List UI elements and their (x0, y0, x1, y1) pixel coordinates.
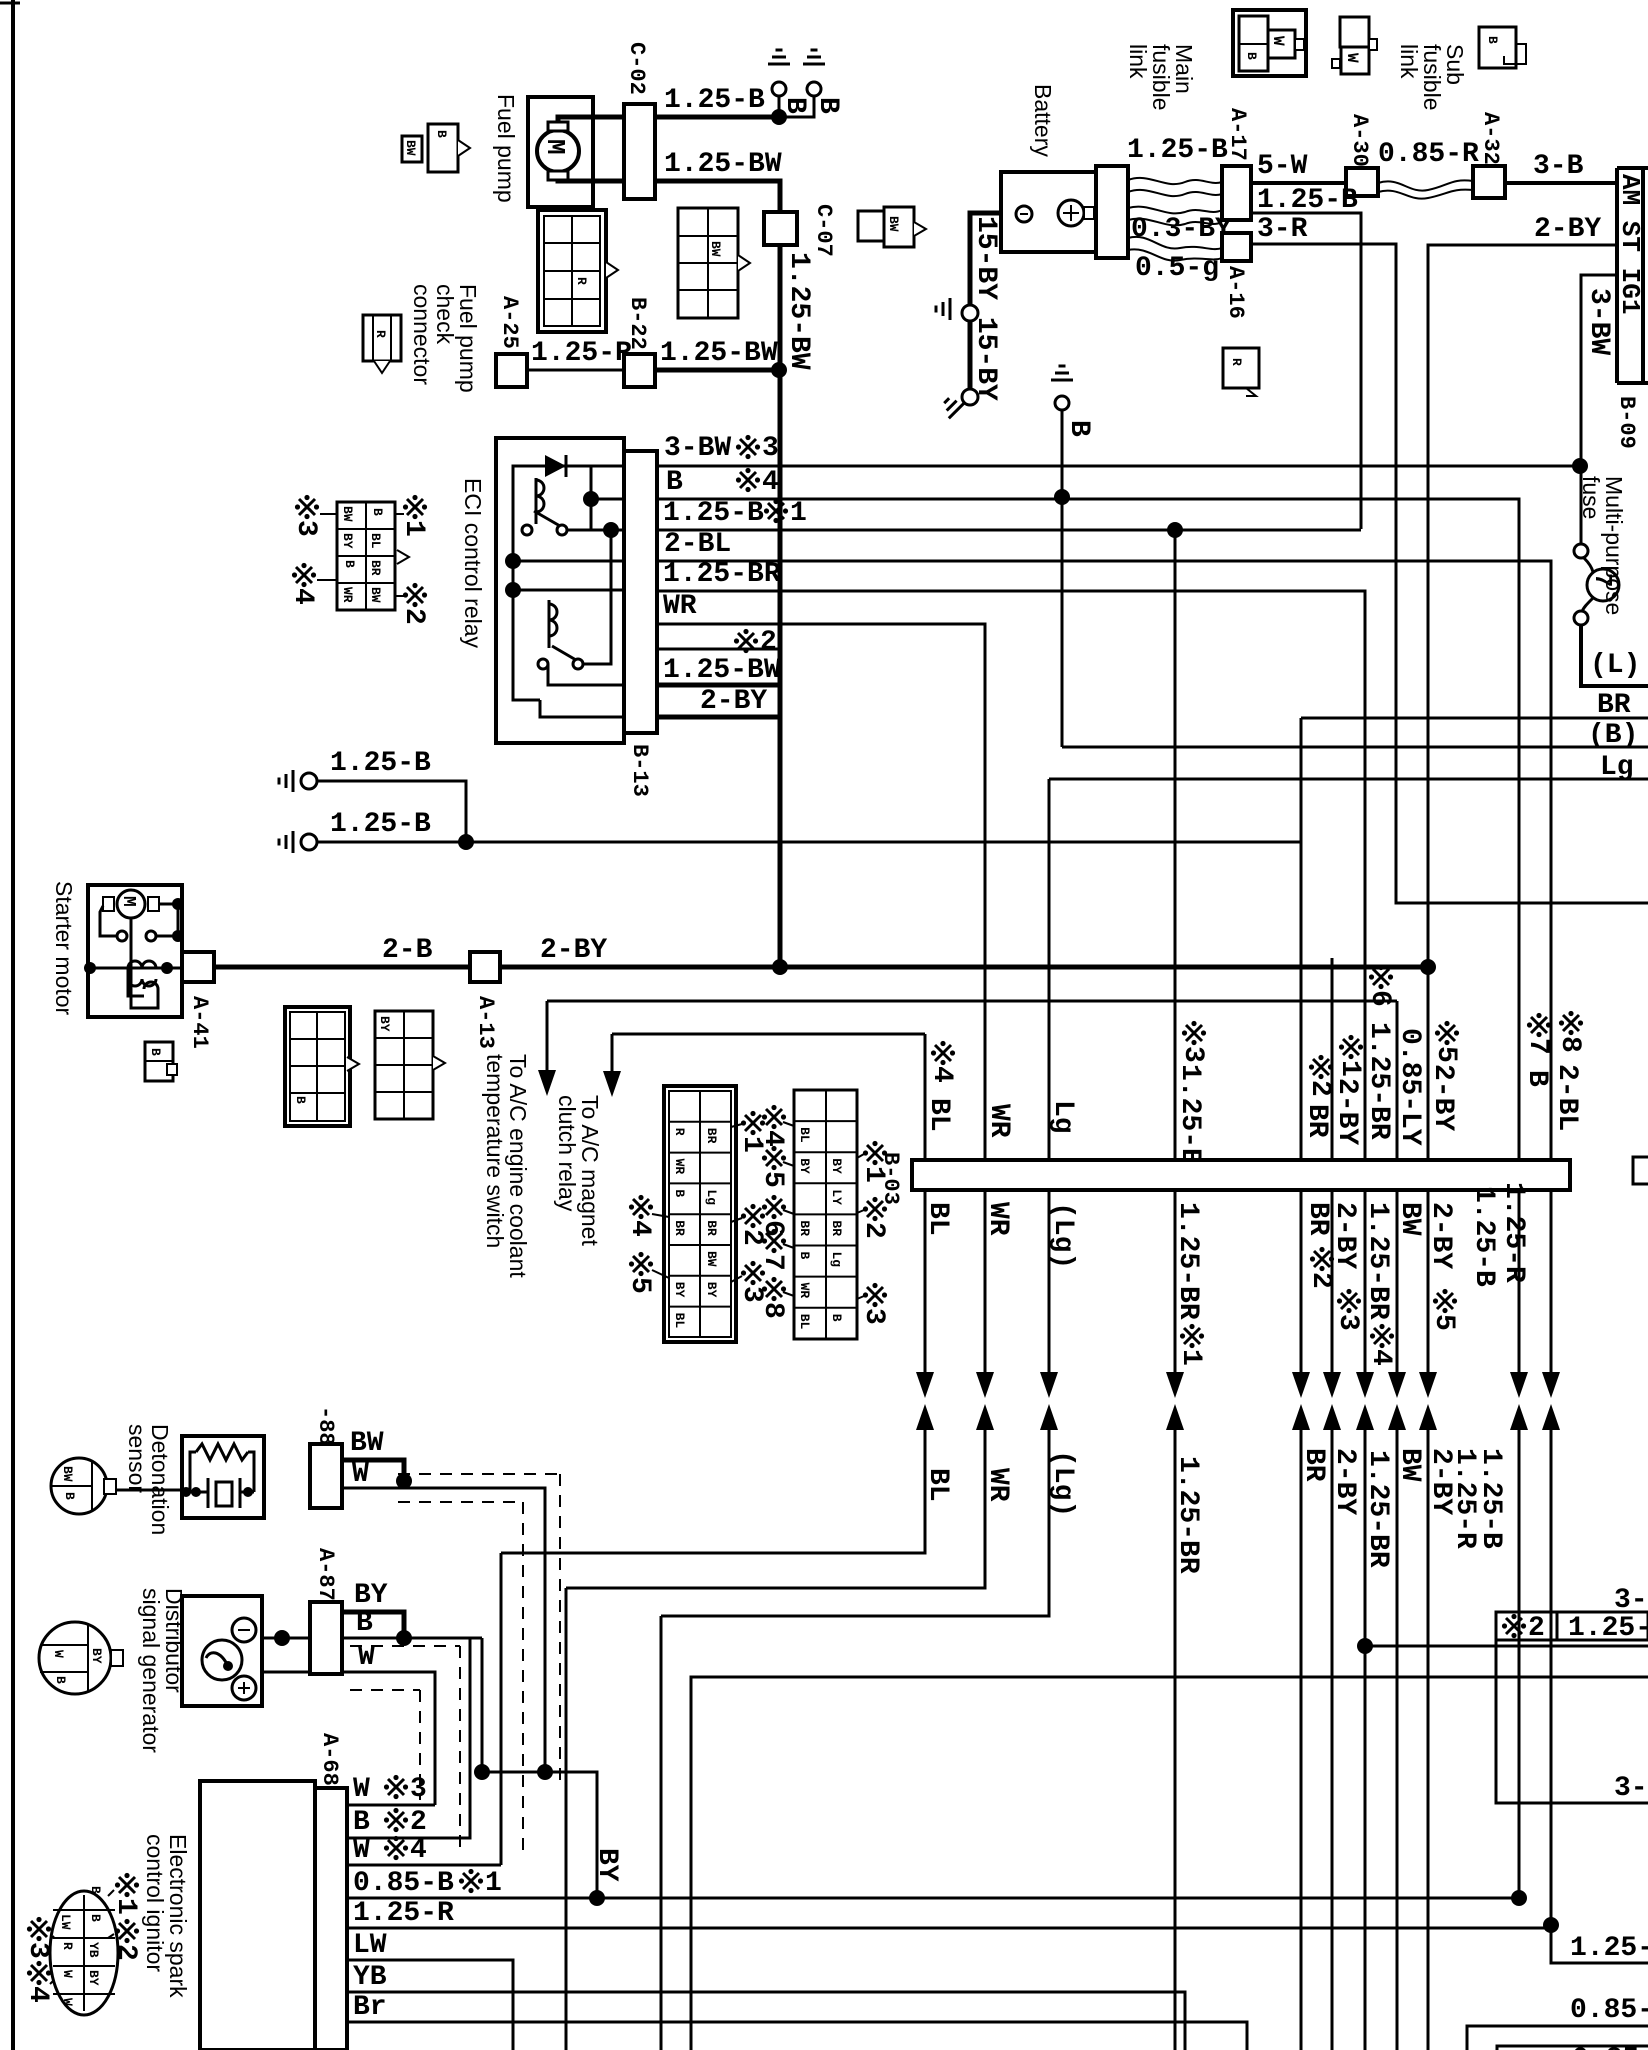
svg-text:1.25-B: 1.25-B (1257, 185, 1358, 216)
ground 1.25-B upper (301, 773, 317, 789)
svg-text:B: B (88, 1886, 103, 1894)
svg-text:2-BY: 2-BY (1329, 1202, 1360, 1269)
svg-text:1.25-R: 1.25-R (353, 1898, 454, 1929)
connector C-07 on wire (764, 212, 797, 245)
svg-text:1.25-B: 1.25-B (1468, 1186, 1499, 1287)
svg-text:0.85-: 0.85- (1572, 2044, 1648, 2050)
svg-text:A-68: A-68 (317, 1733, 342, 1786)
svg-text:BR: BR (829, 1220, 844, 1236)
wire 3-R from A-16 (1251, 244, 1648, 903)
ESC ignitor box (200, 1781, 315, 2050)
wires below B-03 to arrow break (924, 1190, 927, 1372)
svg-text:(Lg): (Lg) (1047, 1202, 1078, 1269)
svg-text:B: B (353, 1807, 370, 1838)
svg-text:1.25-BW: 1.25-BW (663, 655, 781, 686)
svg-text:2: 2 (410, 1807, 427, 1838)
svg-text:BR: BR (704, 1128, 719, 1144)
wire 2-BL above B-03 (1559, 1011, 1583, 1035)
relay output 2-BY (657, 715, 780, 720)
ESC oval connector (50, 1891, 118, 2015)
svg-text:R: R (1229, 358, 1244, 366)
svg-text:1.25-B: 1.25-B (330, 748, 431, 779)
wire B above B-03 (1527, 1013, 1551, 1037)
junction on 1.25-BR (1357, 1638, 1373, 1654)
svg-text:4: 4 (410, 1835, 427, 1866)
svg-text:BW: BW (340, 506, 355, 522)
svg-text:A-25: A-25 (497, 296, 522, 349)
wire 3- lower link (1496, 1640, 1648, 1803)
svg-text:1.25-BR: 1.25-BR (1172, 1456, 1203, 1574)
ESC output W-3 (347, 1804, 435, 1807)
svg-text:BY: BY (340, 533, 355, 549)
svg-text:B: B (356, 1608, 373, 1639)
svg-text:A-32: A-32 (1478, 112, 1503, 165)
relay output 1.25-B (657, 529, 1361, 532)
svg-text:BW: BW (368, 587, 383, 603)
battery (1001, 172, 1096, 252)
svg-text:BL: BL (797, 1127, 812, 1143)
svg-text:BW: BW (704, 1251, 719, 1267)
svg-text:2: 2 (858, 1222, 889, 1239)
svg-text:1: 1 (110, 1898, 141, 1915)
svg-text:2-BL: 2-BL (1551, 1064, 1582, 1131)
svg-text:2-BY: 2-BY (1534, 214, 1601, 245)
svg-text:BY: BY (354, 1580, 388, 1611)
wire 1.25- exit (1551, 1925, 1648, 1963)
svg-text:1.25-R: 1.25-R (531, 338, 632, 369)
svg-text:BY: BY (672, 1282, 687, 1298)
svg-text:B: B (293, 1096, 308, 1104)
distributor connector (39, 1622, 111, 1694)
svg-text:B: B (1063, 420, 1094, 437)
relay output 1.25-BW (657, 683, 780, 688)
wire (B) bus (1062, 746, 1648, 749)
junction with 3-BW relay wire (1572, 458, 1588, 474)
svg-text:B: B (62, 1492, 77, 1500)
wire 2-BY-2 above B-03 (1435, 1021, 1459, 1045)
svg-text:BW: BW (1394, 1448, 1425, 1482)
ref marks ESC oval (115, 1873, 139, 1897)
svg-text:WR: WR (982, 1468, 1013, 1502)
svg-text:1.25-: 1.25- (1568, 1613, 1648, 1644)
svg-text:BW: BW (708, 241, 723, 257)
wavy wire 0.85-R (1378, 180, 1473, 190)
svg-text:WR: WR (983, 1104, 1014, 1138)
wire Lg to bottom (660, 1616, 663, 2050)
wire 1.25-BW / 2-BY trunk down (778, 370, 783, 967)
svg-text:BW: BW (350, 1428, 384, 1459)
wire WR to bottom (565, 1588, 568, 2050)
connector B-22 (624, 354, 655, 387)
svg-text:1.25-B: 1.25-B (1475, 1448, 1506, 1549)
svg-text:0.85-B: 0.85-B (353, 1868, 454, 1899)
connector -88 (310, 1444, 342, 1508)
svg-text:A-30: A-30 (1347, 114, 1372, 167)
svg-text:B-13: B-13 (627, 744, 652, 797)
svg-text:BW: BW (1394, 1202, 1425, 1236)
svg-text:Fuel pump: Fuel pump (493, 94, 519, 203)
svg-text:4: 4 (762, 467, 779, 498)
wire 1.25-BR-2 below arrows (1364, 1430, 1367, 2050)
connector A-41 (182, 952, 214, 982)
wire BR below arrows (1300, 1430, 1303, 2050)
svg-text:BW: BW (60, 1466, 75, 1482)
svg-text:1.25-B: 1.25-B (1127, 135, 1228, 166)
svg-text:Starter motor: Starter motor (51, 881, 77, 1016)
svg-text:B: B (342, 560, 357, 568)
wavy wires battery to A-17/A-16 (1128, 178, 1222, 184)
sub fusible link connector B (1479, 27, 1516, 68)
svg-text:R: R (672, 1128, 687, 1136)
svg-text:1.25-BR: 1.25-BR (1362, 1450, 1393, 1568)
wire 1.25 from junction to right edge (1365, 1645, 1648, 1648)
svg-text:Lg: Lg (1047, 1100, 1078, 1134)
svg-text:BR: BR (1298, 1448, 1329, 1482)
detonation sensor connector (51, 1458, 107, 1514)
svg-text:BL: BL (368, 533, 383, 549)
svg-text:B: B (797, 1252, 812, 1260)
wire 3-B to ignition switch (1505, 181, 1617, 185)
svg-text:1: 1 (790, 498, 807, 529)
svg-text:W: W (1269, 36, 1287, 46)
wire BL drop (924, 1034, 927, 1160)
ref marks strip B (762, 1105, 786, 1129)
connector B-03 bar (912, 1160, 1570, 1190)
connector A-30 (1346, 168, 1378, 196)
svg-text:15-BY 15-BY: 15-BY 15-BY (970, 216, 1001, 401)
svg-text:3: 3 (22, 1942, 53, 1959)
main fusible link connector (1233, 10, 1306, 76)
svg-text:0.3-BY: 0.3-BY (1131, 214, 1232, 245)
svg-text:WR: WR (672, 1159, 687, 1175)
svg-text:2-BY: 2-BY (700, 686, 767, 717)
svg-text:BY: BY (377, 1016, 392, 1032)
svg-text:5: 5 (624, 1277, 655, 1294)
right edge connector bracket (1633, 1157, 1648, 1184)
wire BR above B-03 label (1309, 1055, 1333, 1079)
svg-text:BY: BY (591, 1848, 622, 1882)
svg-text:1.25-BR: 1.25-BR (1172, 1202, 1203, 1320)
multi-purpose fuse 7 (1574, 544, 1588, 558)
starter motor box (88, 885, 182, 1017)
svg-text:1.25-B: 1.25-B (664, 85, 765, 116)
svg-text:ECI control relay: ECI control relay (460, 478, 486, 649)
svg-text:(B): (B) (1588, 720, 1638, 751)
wire Lg drop (1048, 779, 1051, 1160)
wire to A/C engine coolant temperature switch (547, 1000, 1397, 1003)
svg-text:BR: BR (368, 560, 383, 576)
wire BL above B-03 (931, 1041, 955, 1065)
svg-text:3: 3 (858, 1308, 889, 1325)
svg-text:5: 5 (757, 1171, 788, 1188)
svg-text:WR: WR (340, 587, 355, 603)
svg-text:R: R (574, 277, 589, 285)
relay output 3-BW (657, 465, 1580, 468)
svg-text:temperature switch: temperature switch (482, 1054, 508, 1248)
wire B riser (1061, 497, 1064, 747)
svg-text:4: 4 (624, 1220, 655, 1237)
shield dashes (detonation) (398, 1473, 560, 1475)
svg-text:A-87: A-87 (313, 1548, 338, 1601)
svg-text:M: M (118, 896, 138, 907)
fusible link connector W (1340, 17, 1369, 47)
ESC output YB (347, 1992, 1185, 2050)
wire fuel pump to C-02 (558, 117, 624, 122)
svg-text:3-B: 3-B (1533, 151, 1584, 182)
svg-text:2-BY: 2-BY (1331, 1078, 1362, 1145)
svg-text:1: 1 (398, 520, 429, 537)
wire Lg below arrows (661, 1430, 1049, 1616)
svg-text:4: 4 (1365, 1349, 1396, 1366)
ground B below battery (1055, 396, 1069, 410)
ESC output B-2 (347, 1638, 470, 1838)
svg-text:1.25-R: 1.25-R (1498, 1182, 1529, 1283)
svg-text:1.25-B: 1.25-B (1174, 1064, 1205, 1165)
wire BL below arrows (501, 1430, 925, 1553)
ECI control relay box (496, 438, 624, 743)
connector R (pigtail) (363, 315, 401, 361)
svg-text:B: B (434, 130, 449, 138)
svg-text:1.25-BR: 1.25-BR (1362, 1202, 1393, 1320)
connector B-13 (624, 451, 657, 733)
svg-text:4: 4 (287, 588, 318, 605)
svg-text:1.25-B: 1.25-B (330, 809, 431, 840)
svg-text:C-07: C-07 (811, 204, 836, 257)
wire 1.25-B drop to B-03 (1174, 530, 1177, 1160)
svg-text:3-R: 3-R (1257, 214, 1308, 245)
svg-text:BR: BR (1301, 1104, 1332, 1138)
svg-text:BR: BR (1302, 1202, 1333, 1236)
wire 2-BY-2 below arrows (1427, 1430, 1430, 2050)
svg-text:BW: BW (403, 140, 418, 156)
svg-text:YB: YB (353, 1962, 387, 1993)
svg-text:LW: LW (353, 1930, 387, 1961)
svg-text:link: link (1125, 44, 1151, 79)
svg-text:3: 3 (762, 433, 779, 464)
svg-text:BY: BY (86, 1970, 101, 1986)
wire 1.25-B fuel pump (655, 115, 779, 120)
svg-text:2-BY: 2-BY (1329, 1448, 1360, 1515)
svg-text:2: 2 (398, 608, 429, 625)
svg-text:B-09: B-09 (1614, 396, 1639, 449)
svg-text:1: 1 (1334, 1060, 1365, 1077)
svg-text:5: 5 (1428, 1314, 1459, 1331)
svg-text:3: 3 (1332, 1314, 1363, 1331)
connector pigtail BW (C-07 mate) (858, 211, 884, 241)
svg-text:1: 1 (485, 1868, 502, 1899)
svg-text:BL: BL (672, 1313, 687, 1329)
wire BL joins W-4 (500, 1553, 503, 1865)
svg-text:(L): (L) (1590, 650, 1640, 681)
svg-text:2-BL: 2-BL (664, 529, 731, 560)
connector A-25 (496, 354, 527, 387)
ESC output 1.25-R (347, 1927, 1551, 1930)
svg-text:Br: Br (353, 1992, 387, 2023)
svg-text:BR: BR (704, 1220, 719, 1236)
svg-text:1.25-BW: 1.25-BW (664, 149, 782, 180)
svg-text:0.85-: 0.85- (1570, 1995, 1648, 2026)
wire 2-BY below arrows (1331, 1430, 1334, 2050)
svg-text:6: 6 (757, 1220, 788, 1237)
svg-text:2-BY: 2-BY (540, 935, 607, 966)
wire B drop (481, 1638, 484, 1772)
svg-text:W: W (1343, 53, 1361, 63)
svg-text:BL: BL (922, 1202, 953, 1236)
svg-text:M: M (540, 139, 570, 155)
connector grid A-25 (8 cavities) (538, 210, 606, 332)
ignition switch AM ST IG1 (1615, 168, 1619, 383)
fuel pump (528, 97, 593, 207)
svg-text:BL: BL (922, 1468, 953, 1502)
svg-text:1.25-BW: 1.25-BW (660, 338, 778, 369)
svg-text:Battery: Battery (1030, 84, 1056, 157)
svg-text:1.25-BR: 1.25-BR (663, 559, 781, 590)
wire 2-BY from ignition (1428, 245, 1617, 1160)
svg-text:B: B (1244, 52, 1259, 60)
svg-text:LW: LW (58, 1914, 73, 1930)
svg-text:C-02: C-02 (624, 42, 649, 95)
wire 2-BY to junction (500, 965, 1428, 970)
relay output 1.25-BR (657, 591, 1365, 1160)
wire B from A-87 (262, 1637, 310, 1640)
svg-text:A-17: A-17 (1225, 108, 1250, 161)
svg-text:control ignitor: control ignitor (142, 1834, 168, 1972)
wire 0.85- exit B (1497, 2046, 1648, 2050)
wire 0.85- exit A (1467, 2026, 1648, 2050)
svg-text:0.85-R: 0.85-R (1378, 139, 1479, 170)
svg-text:B: B (812, 97, 843, 114)
svg-text:B: B (1521, 1070, 1552, 1087)
svg-text:4: 4 (757, 1130, 788, 1147)
wire 1.25-B from A-17 down to relay row (1251, 213, 1361, 529)
svg-text:signal generator: signal generator (138, 1588, 164, 1753)
svg-text:4: 4 (926, 1066, 957, 1083)
junctions on 2-BY (772, 959, 788, 975)
svg-text:B: B (88, 1914, 103, 1922)
connector C-02 (624, 104, 655, 199)
svg-text:0.85-LY: 0.85-LY (1394, 1028, 1425, 1146)
wire 2-B (214, 965, 470, 970)
svg-text:BY: BY (89, 1648, 104, 1664)
svg-text:W: W (352, 1459, 369, 1490)
connector A-16 (1222, 233, 1251, 261)
svg-text:BY: BY (704, 1282, 719, 1298)
wire 15-BY to grounds (970, 213, 1001, 306)
distributor box (182, 1596, 262, 1706)
svg-text:sensor: sensor (124, 1424, 150, 1493)
junction (458, 834, 474, 850)
svg-text:link: link (1396, 44, 1422, 79)
wire 1.25-BW to junction (655, 368, 779, 373)
svg-text:-88: -88 (313, 1406, 338, 1446)
svg-text:BR: BR (797, 1220, 812, 1236)
svg-text:WR: WR (982, 1202, 1013, 1236)
svg-text:Lg: Lg (1600, 752, 1634, 783)
relay output B (657, 499, 1519, 1160)
wire WR below arrows (566, 1430, 985, 1588)
wire BY from A-87 (342, 1612, 404, 1638)
svg-text:2: 2 (1304, 1080, 1335, 1097)
wire to BY vertical (482, 1772, 597, 1898)
svg-text:7: 7 (1522, 1038, 1553, 1055)
svg-text:1.25-: 1.25- (1570, 1933, 1648, 1964)
svg-text:4: 4 (22, 1986, 53, 2003)
svg-text:W: W (353, 1835, 370, 1866)
ref marks at relay mate (295, 495, 319, 519)
svg-text:LY: LY (829, 1189, 844, 1205)
relay output 2-BL (657, 561, 1551, 1160)
connector pigtail BW/B near fuel pump (402, 136, 422, 162)
svg-text:clutch relay: clutch relay (554, 1095, 580, 1212)
connector A-68 (315, 1788, 347, 2050)
svg-text:B-03: B-03 (878, 1152, 903, 1205)
svg-text:R: R (60, 1942, 75, 1950)
connector strip 16-cavity B (794, 1090, 857, 1339)
svg-text:7: 7 (757, 1254, 788, 1271)
svg-text:5-W: 5-W (1257, 151, 1308, 182)
svg-text:BW: BW (886, 216, 901, 232)
wire from right edge down at 691 (691, 1677, 1648, 2050)
wire BR bus (1301, 717, 1648, 720)
svg-text:WR: WR (797, 1283, 812, 1299)
wire 1.25-BW down (778, 245, 783, 370)
svg-text:3: 3 (290, 520, 321, 537)
connector A-13 (470, 952, 500, 982)
ESC output Br (347, 2022, 1247, 2050)
svg-text:6: 6 (1364, 990, 1395, 1007)
ESC output 0.85-B (347, 1897, 1519, 1900)
svg-text:0.5-g: 0.5-g (1135, 253, 1219, 284)
relay short row (657, 648, 781, 651)
svg-text:YB: YB (86, 1942, 101, 1958)
svg-text:3: 3 (1177, 1046, 1208, 1063)
ref marks strip A (741, 1111, 765, 1135)
svg-text:B: B (829, 1314, 844, 1322)
connector B pigtail below starter (145, 1042, 173, 1081)
junction (1054, 489, 1070, 505)
svg-text:BL: BL (923, 1098, 954, 1132)
svg-text:A-13: A-13 (473, 996, 498, 1049)
detonation sensor box (182, 1436, 264, 1518)
svg-text:3: 3 (410, 1774, 427, 1805)
wire 0.85-LY drop (1396, 1001, 1399, 1160)
svg-text:(Lg): (Lg) (1047, 1450, 1078, 1517)
svg-text:2: 2 (110, 1944, 141, 1961)
wire to A/C magnet clutch relay (612, 1033, 925, 1036)
svg-text:1: 1 (1175, 1349, 1206, 1366)
wire 2-BY-1 above B-03 (1331, 958, 1334, 1160)
svg-text:B: B (1485, 36, 1500, 44)
wire Lg bus (1049, 778, 1648, 781)
svg-text:8: 8 (1554, 1036, 1585, 1053)
svg-text:W: W (60, 1998, 75, 2006)
svg-text:5: 5 (1430, 1046, 1461, 1063)
wire 1.25-BR below arrows (1174, 1430, 1177, 2050)
svg-text:BR: BR (672, 1220, 687, 1236)
relay output WR (657, 624, 985, 1160)
svg-text:BY: BY (797, 1158, 812, 1174)
wire W from A-87 (262, 1671, 310, 1674)
junction (771, 109, 787, 125)
svg-text:AM ST IG1: AM ST IG1 (1615, 174, 1645, 314)
svg-text:WR: WR (663, 591, 697, 622)
svg-text:1.25-B: 1.25-B (663, 498, 764, 529)
svg-text:B: B (53, 1676, 68, 1684)
wire to 0.85-B junction (1518, 1430, 1521, 1898)
ground B (fuel pump) x2 (778, 96, 781, 117)
svg-text:R: R (373, 330, 388, 338)
svg-text:3-BW: 3-BW (1583, 288, 1614, 355)
